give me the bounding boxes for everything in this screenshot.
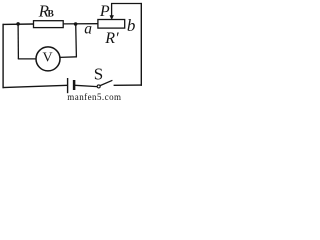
potentiometer slider arrow P xyxy=(111,3,113,15)
voltmeter U1 circle xyxy=(36,47,60,71)
svg-text:b: b xyxy=(127,16,135,35)
node junction dot right (top of voltmeter branch right) xyxy=(74,22,78,26)
svg-text:manfen5.com: manfen5.com xyxy=(67,92,121,100)
wire top-left horizontal from left corner to resistor RB xyxy=(3,23,34,25)
resistor RB box xyxy=(34,21,64,28)
battery BT1 short thick plate xyxy=(73,80,76,90)
svg-text:P: P xyxy=(99,3,110,20)
switch S lever xyxy=(100,80,112,85)
wire voltmeter right horizontal xyxy=(60,56,77,59)
node junction dot left (top of voltmeter branch) xyxy=(16,22,20,26)
wire left vertical side xyxy=(2,24,4,88)
wire battery to switch xyxy=(75,85,97,86)
battery BT1 long plate xyxy=(67,78,69,93)
wire from RB to right junction and potentiometer xyxy=(63,23,98,25)
wire voltmeter branch right vertical xyxy=(75,24,78,57)
wire slider to top-right corner xyxy=(111,3,142,5)
wire switch to bottom-right corner xyxy=(114,84,142,86)
potentiometer R' box xyxy=(98,20,125,29)
svg-text:S: S xyxy=(94,64,103,83)
svg-text:B: B xyxy=(48,10,55,20)
wire right vertical side xyxy=(140,3,142,86)
svg-text:R′: R′ xyxy=(104,30,119,47)
switch S pivot circle xyxy=(97,85,100,88)
svg-text:a: a xyxy=(84,20,92,37)
wire voltmeter left horizontal xyxy=(18,58,36,60)
svg-text:V: V xyxy=(42,51,52,66)
wire bottom-left horizontal to battery xyxy=(3,85,68,87)
wire voltmeter branch left vertical xyxy=(17,24,19,59)
